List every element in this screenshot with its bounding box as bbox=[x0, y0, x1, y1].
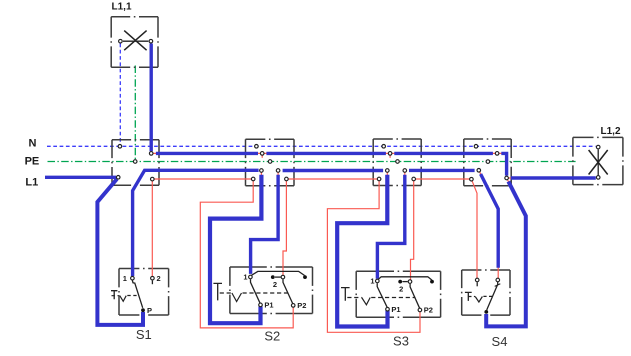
lever S2 right bbox=[283, 279, 293, 304]
svg-text:1: 1 bbox=[370, 277, 374, 286]
lamp L1,2 outline box bbox=[573, 137, 623, 184]
terminal S3 P1 bbox=[386, 307, 390, 311]
link S2 contacts bbox=[275, 276, 281, 278]
lever tick S4 bbox=[495, 284, 501, 287]
wire red under switched lamp line bbox=[151, 153, 595, 178]
actuator spring S1 bbox=[120, 296, 126, 302]
wire switched line to lamp L1,2 bbox=[511, 176, 596, 179]
node JB4 link bbox=[477, 169, 481, 173]
wire red stub node JB4 lower bbox=[507, 178, 510, 183]
lamp L1,2 cross bbox=[589, 150, 608, 175]
terminal S4 right bbox=[496, 278, 500, 282]
node N JB3 bbox=[382, 145, 386, 149]
actuator spring S4 bbox=[475, 297, 482, 303]
terminal S1 P bbox=[141, 308, 145, 312]
wire JB2-JB1 link to S1 terminal 1 bbox=[133, 170, 259, 276]
actuator spring S2 bbox=[232, 293, 242, 302]
actuator dash S1 a bbox=[112, 295, 120, 297]
svg-text:2: 2 bbox=[399, 284, 403, 293]
terminal S3 2 bbox=[408, 280, 412, 284]
actuator dash S4 b bbox=[483, 295, 492, 297]
actuator dash S2 a bbox=[220, 292, 232, 294]
svg-text:S3: S3 bbox=[393, 333, 409, 348]
node PE JB3 bbox=[396, 160, 400, 164]
svg-text:S4: S4 bbox=[492, 334, 508, 349]
wire S4 P wrap to JB4 bbox=[486, 182, 526, 327]
terminal S1 2 bbox=[151, 276, 155, 280]
wire red bus JB1-JB2 bbox=[152, 178, 253, 180]
wire red stub node JB3 right bbox=[404, 171, 406, 177]
actuator dash S1 b bbox=[127, 295, 136, 297]
actuator T S1 bbox=[111, 291, 117, 300]
wire red S1 terminal 2 drop bbox=[151, 179, 153, 277]
wire red bus JB2-JB3 bbox=[286, 178, 379, 180]
actuator T S4 bbox=[465, 292, 472, 301]
actuator dash S4 a bbox=[468, 296, 475, 298]
wire PE drop to lamp L1,1 bbox=[134, 66, 136, 160]
wire JB2 to S2 terminal 1 bbox=[251, 175, 279, 274]
lamp L1,1 filament line bbox=[123, 40, 148, 42]
node PE JB1 bbox=[133, 160, 137, 164]
node PE JB2 bbox=[268, 160, 272, 164]
wire JB3 wrap to S3 P1 bbox=[337, 175, 387, 327]
wire JB3 to S3 terminal 1 bbox=[377, 175, 404, 279]
wire L1 supply bus bbox=[45, 176, 116, 179]
junction box JB2 bbox=[246, 139, 295, 185]
wire red stub node JB4 bbox=[479, 170, 482, 176]
terminal S2 P1 bbox=[259, 303, 263, 307]
wire JB4 to S4 right terminal bbox=[481, 174, 499, 268]
svg-text:L1: L1 bbox=[25, 176, 38, 188]
node L1 JB1 bbox=[116, 176, 120, 180]
wire switched line JB4 corner bbox=[501, 153, 506, 175]
node PE JB4 bbox=[486, 160, 490, 164]
terminal S3 1 bbox=[376, 279, 380, 283]
svg-text:2: 2 bbox=[157, 274, 161, 283]
node red JB1 bbox=[151, 177, 155, 181]
actuator spring S3 bbox=[362, 298, 371, 305]
bridge S2 bbox=[252, 271, 305, 275]
svg-text:P1: P1 bbox=[391, 305, 400, 314]
svg-text:P2: P2 bbox=[424, 306, 433, 315]
svg-text:P: P bbox=[147, 306, 152, 315]
wire red JB2 wrap to S2 P2 bbox=[200, 179, 293, 328]
actuator T S2 bbox=[213, 283, 222, 300]
net PE bus line bbox=[48, 161, 577, 163]
wire N drop to lamp L1,1 bbox=[119, 44, 121, 145]
node lamp line JB1 bbox=[149, 152, 153, 156]
svg-text:L1,1: L1,1 bbox=[112, 2, 132, 13]
svg-text:P2: P2 bbox=[297, 301, 306, 310]
lever S3 left bbox=[377, 283, 387, 307]
actuator T S3 bbox=[341, 288, 350, 301]
lever S2 left bbox=[251, 279, 261, 303]
node red JB3 left bbox=[377, 177, 381, 181]
terminal S2 P2 bbox=[291, 304, 295, 308]
contact dot S3 2 bbox=[398, 280, 402, 284]
node red JB3 right bbox=[412, 177, 416, 181]
switch S3 outline box bbox=[356, 271, 440, 317]
wire red stub S4 right terminal bbox=[497, 268, 499, 279]
node N JB2 bbox=[255, 145, 259, 149]
svg-text:L1,2: L1,2 bbox=[601, 126, 621, 137]
svg-text:1: 1 bbox=[243, 273, 247, 282]
wire red JB3 to S3 terminal 2 bbox=[411, 179, 414, 280]
node lamp line JB4 bbox=[495, 152, 499, 156]
junction box JB1 bbox=[112, 140, 159, 186]
wire red JB3 wrap to S3 P2 bbox=[327, 179, 420, 332]
node JB3 left bbox=[386, 169, 390, 173]
switch S2 outline box bbox=[230, 267, 313, 314]
junction box JB3 bbox=[373, 139, 421, 186]
lever S4 bbox=[487, 282, 498, 310]
node lamp line JB2 bbox=[260, 152, 264, 156]
wire lamp L1,1 to JB1 bbox=[149, 44, 152, 152]
node N JB4 bbox=[474, 145, 478, 149]
bridge S3 bbox=[379, 277, 432, 280]
actuator dash S3 b bbox=[371, 297, 415, 299]
switch S1 outline box bbox=[119, 269, 169, 316]
contact dot S2 2 bbox=[271, 275, 275, 279]
wire red stub under node JB3 lamp line bbox=[389, 153, 391, 157]
wire switched line JB2-JB3 bbox=[266, 152, 386, 155]
lamp L1,1 cross bbox=[124, 31, 146, 51]
node red JB2 left bbox=[251, 177, 255, 181]
svg-text:PE: PE bbox=[25, 155, 40, 167]
svg-text:S2: S2 bbox=[264, 328, 280, 343]
node N JB1 bbox=[118, 145, 122, 149]
svg-text:S1: S1 bbox=[136, 327, 152, 342]
terminal lamp L1,2 top bbox=[596, 145, 600, 149]
svg-text:1: 1 bbox=[123, 274, 127, 283]
contact dot S2 far bbox=[303, 275, 307, 279]
terminal tail S1 2 bbox=[151, 281, 153, 285]
lamp L1,1 outline box bbox=[111, 17, 158, 67]
terminal S3 P2 bbox=[418, 308, 422, 312]
contact dot S3 far bbox=[430, 280, 434, 284]
wire red stub node JB2 left bbox=[260, 171, 262, 177]
actuator dash S3 a bbox=[347, 297, 361, 299]
wire red JB2 to S2 terminal 2 bbox=[283, 179, 286, 276]
actuator dash S2 b bbox=[243, 292, 289, 294]
wire JB2 wrap to S2 P1 bbox=[210, 175, 261, 324]
wire JB2-JB3 link bbox=[283, 169, 384, 172]
node red JB2 right bbox=[285, 177, 289, 181]
wire JB1 wrap to S1 P bbox=[97, 179, 143, 325]
terminal S2 1 bbox=[249, 275, 253, 279]
lever S1 bbox=[132, 280, 142, 308]
node red JB4 bbox=[470, 177, 474, 181]
svg-text:2: 2 bbox=[273, 280, 277, 289]
node JB4 lamp corner bbox=[505, 176, 509, 180]
wire switched line JB3-JB4 bbox=[394, 152, 493, 155]
terminal lamp L1,1 right bbox=[149, 39, 153, 43]
terminal S4 left bbox=[475, 278, 479, 282]
lamp L1,2 filament line bbox=[597, 150, 599, 176]
terminal lamp L1,1 left bbox=[119, 39, 123, 43]
terminal tail S4 left bbox=[476, 282, 478, 286]
wire red stub under node JB2 lamp line bbox=[261, 153, 263, 157]
wire red stub node JB2 right bbox=[277, 171, 279, 177]
svg-text:N: N bbox=[29, 138, 37, 150]
terminal S4 P bbox=[484, 310, 488, 314]
net N bus line bbox=[47, 145, 596, 147]
terminal S2 2 bbox=[281, 275, 285, 279]
node lamp line JB3 bbox=[388, 152, 392, 156]
wire red stub node JB3 left bbox=[386, 171, 388, 177]
wire red JB4 to S4 left terminal bbox=[471, 179, 477, 278]
terminal lamp L1,2 bottom bbox=[596, 176, 600, 180]
node JB3 right bbox=[403, 169, 407, 173]
junction box JB4 bbox=[464, 139, 511, 186]
lever S3 right bbox=[410, 284, 420, 308]
node JB2 right bbox=[276, 169, 280, 173]
wire red bus JB3-JB4 bbox=[414, 178, 472, 180]
svg-text:P1: P1 bbox=[264, 301, 273, 310]
wire JB3-JB4 link bbox=[409, 169, 475, 172]
node JB2 left bbox=[260, 169, 264, 173]
terminal S1 1 bbox=[131, 276, 135, 280]
wire switched line JB1-JB2 bbox=[156, 152, 258, 155]
link S3 contacts bbox=[402, 281, 407, 283]
switch S4 outline box bbox=[462, 270, 510, 315]
